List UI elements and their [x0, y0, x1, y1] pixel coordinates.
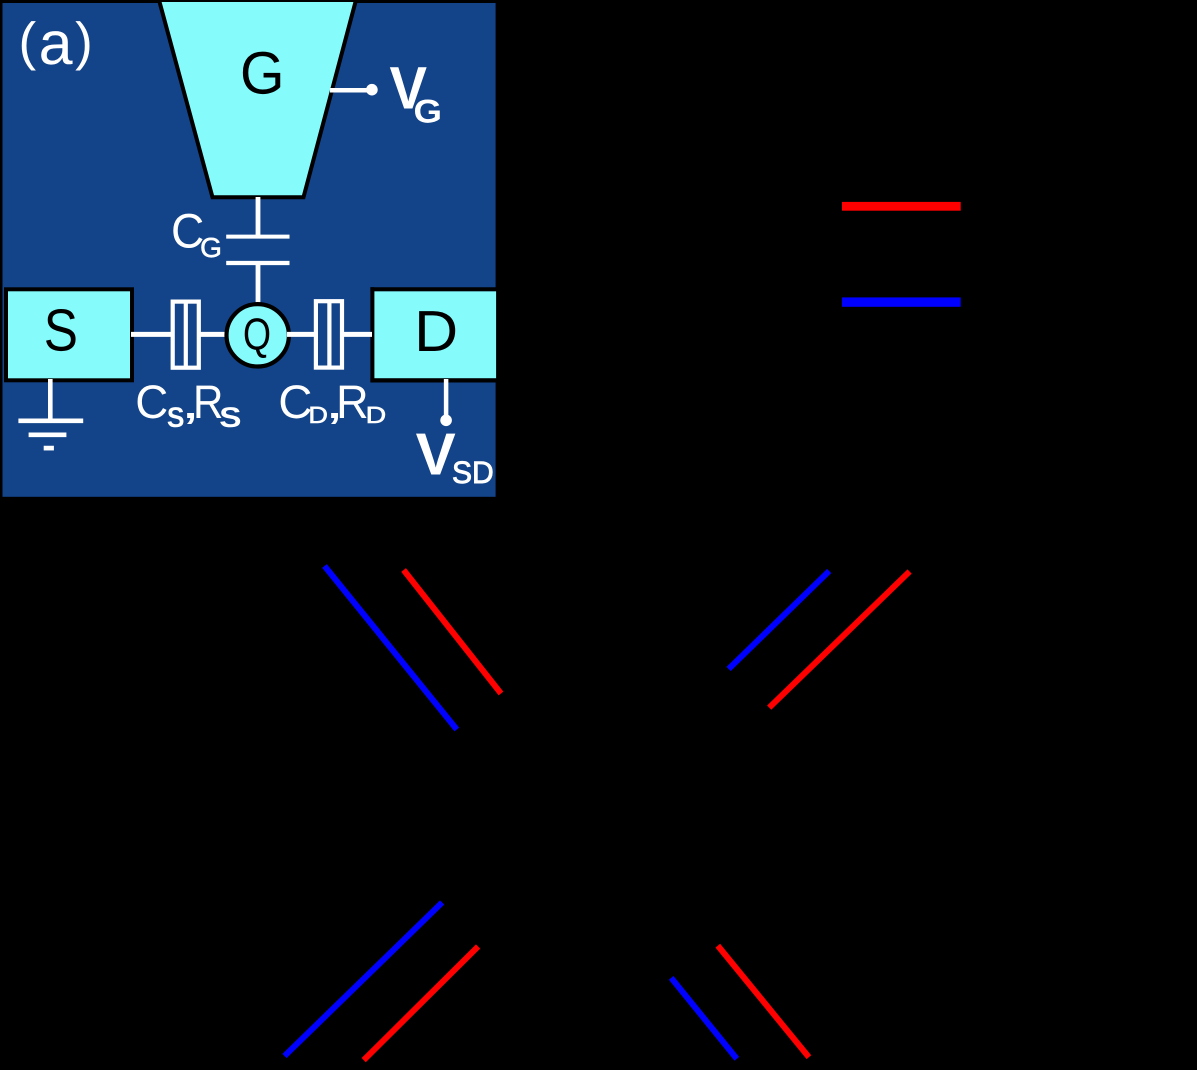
svg-text:Q: Q [243, 309, 271, 360]
diamond edge top-left blue [325, 566, 457, 730]
wire D to VSD terminal [444, 379, 449, 416]
diamond edge bottom-right red [718, 946, 809, 1057]
svg-text:G: G [200, 232, 222, 263]
svg-text:G: G [240, 40, 285, 107]
tunnel junction CS,RS [173, 302, 199, 368]
svg-text:R: R [336, 375, 369, 428]
svg-text:S: S [219, 402, 241, 434]
node VG terminal dot [366, 84, 378, 96]
quantum dot Q [227, 304, 289, 366]
svg-text:(a): (a) [19, 9, 96, 77]
diamond edge bottom-right blue [671, 978, 737, 1059]
tunnel junction CD,RD [316, 301, 342, 368]
wire capacitor CG to dot Q [256, 263, 261, 306]
capacitor CG bottom plate [226, 261, 289, 265]
svg-text:C: C [135, 375, 168, 428]
diamond edge top-right blue [729, 571, 830, 669]
wire S to left junction [131, 332, 172, 337]
ground [18, 421, 83, 448]
node VSD terminal dot [440, 415, 452, 427]
svg-text:C: C [278, 375, 312, 428]
diamond edge bottom-left red [364, 947, 478, 1061]
diamond edge bottom-left blue [285, 903, 443, 1057]
energy level red bar [842, 202, 961, 211]
diamond edge top-right red [769, 572, 909, 708]
drain D electrode [372, 291, 496, 378]
svg-text:D: D [414, 299, 458, 364]
energy level blue bar [842, 297, 961, 306]
capacitor CG top plate [226, 235, 289, 239]
svg-text:V: V [416, 421, 456, 488]
svg-text:G: G [414, 93, 443, 130]
wire left junction to Q [199, 332, 229, 337]
wire gate to VG terminal [330, 88, 371, 93]
svg-text:SD: SD [452, 455, 494, 490]
diamond edge top-left red [404, 570, 501, 694]
wire Q to right junction [287, 332, 316, 337]
gate G electrode [159, 0, 356, 197]
wire right junction to D [342, 332, 372, 337]
wire gate to capacitor CG [256, 197, 261, 238]
svg-text:D: D [366, 402, 387, 428]
svg-text:S: S [44, 297, 78, 364]
source S electrode [6, 289, 132, 380]
panel (a) background [3, 3, 496, 497]
wire S to ground [48, 379, 53, 421]
